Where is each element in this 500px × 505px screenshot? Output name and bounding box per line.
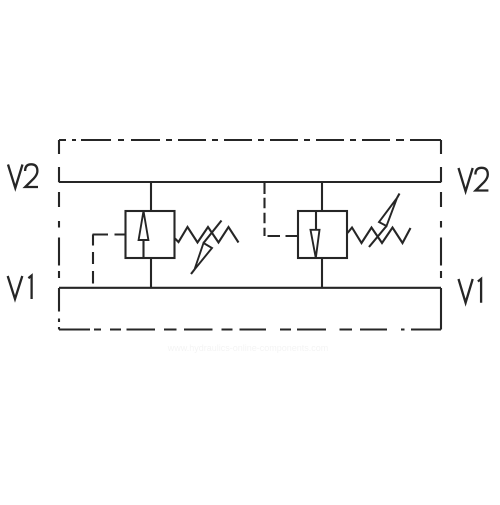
svg-text:www.hydraulics-online-componen: www.hydraulics-online-components.com [167, 343, 329, 353]
